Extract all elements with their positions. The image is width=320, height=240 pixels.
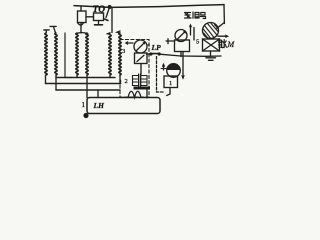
XJ top right wire [217, 23, 225, 29]
wire rail 1 [56, 77, 115, 79]
signal relay left pin [166, 40, 175, 42]
svg-text:1: 1 [82, 101, 86, 109]
link LP [149, 52, 152, 55]
wire top bus right drop [223, 5, 225, 24]
svg-text:2: 2 [125, 78, 128, 85]
wire stub right of signal relay [193, 28, 195, 41]
svg-text:3: 3 [122, 48, 125, 55]
arrow to signal [190, 25, 192, 35]
relay 2 left pin arrow [163, 65, 165, 71]
svg-text:M: M [227, 40, 236, 49]
XJ bottom pin [210, 51, 212, 56]
relay 2 disc shading [167, 64, 180, 69]
relay 2 right riser arrow [182, 76, 185, 79]
relay 1 contact box [135, 53, 148, 64]
wire link to bus [161, 54, 181, 56]
label 跳M (trip M) hand drawn [219, 40, 227, 48]
contact DL auxiliary [108, 6, 111, 9]
saturating transformer windings [138, 74, 140, 86]
link LP wire left [147, 53, 150, 55]
label 至信号 (to signal) hand drawn [185, 12, 206, 19]
XJ arrow to trip [218, 35, 227, 37]
relay 2 contact box [164, 76, 178, 88]
wire coil b2 drop [86, 75, 88, 98]
dashed drop to relay 2 [157, 57, 164, 93]
relay 2 induction disc [167, 64, 181, 78]
relay XJ hatched disc [203, 23, 219, 39]
svg-text:5: 5 [196, 39, 199, 46]
svg-text:1: 1 [169, 80, 172, 87]
slash in contact box [137, 55, 144, 61]
relay 1 right tick [147, 44, 150, 46]
ground under XJ [206, 57, 216, 59]
coil c1 top hook [107, 32, 110, 35]
XJ flag box [203, 39, 220, 51]
wire rail 2 [46, 83, 121, 85]
XJ disc hatching [203, 23, 218, 38]
wire riser pair3 [111, 21, 113, 33]
signal relay bottom pin [180, 52, 182, 57]
relay 1 needle [137, 43, 145, 51]
signal relay needle [177, 32, 185, 40]
coil c2 top hook [117, 31, 120, 33]
relay dashed case [120, 40, 149, 98]
wire riser pair2 [80, 23, 82, 34]
wire coil c1 drop [109, 75, 111, 78]
relay 2 bottom pin [167, 88, 170, 96]
blob bottom left corner [83, 113, 88, 118]
CT winding coil b2 [86, 33, 88, 75]
trip coil TQ box [94, 13, 104, 21]
wire coil a2 drop [55, 75, 57, 90]
wire top bus [74, 5, 224, 8]
coil a2 top pin [50, 26, 56, 32]
wire R to TQ coil [86, 16, 94, 18]
terminal bar under TQ [95, 24, 103, 26]
wire drop to resistor [80, 6, 82, 11]
signal relay contact box [175, 40, 190, 52]
terminal box LH [87, 98, 160, 114]
relay 2 left pin tick [161, 68, 167, 70]
wire coil a1 drop [45, 75, 47, 84]
CT winding coil a2 [55, 33, 57, 75]
signal relay disc [175, 30, 187, 42]
relay 1 induction disc [134, 40, 147, 53]
contact foot pair3 [105, 19, 109, 21]
wire TQ bottom lead [98, 21, 100, 24]
flexible loop humps [128, 91, 141, 97]
CT winding coil a1 [45, 33, 47, 75]
XJ flag cross [203, 39, 220, 51]
wire rail 3 [56, 89, 120, 91]
wire relay1 to transformer [140, 64, 142, 75]
wire bus under relays [181, 55, 221, 57]
svg-text:LP: LP [151, 43, 162, 52]
wire coil c2 drop [119, 75, 122, 84]
CT winding coil c1 [109, 33, 111, 75]
CT winding coil c2 [119, 33, 121, 75]
resistor R [78, 11, 87, 23]
arrow direction element [128, 42, 134, 44]
coil a1 top pin [44, 30, 49, 33]
wire transformer to box [146, 90, 148, 99]
conductor line mid [65, 33, 72, 78]
wire coil b1 drop [76, 75, 78, 78]
transformer core bar [134, 87, 151, 90]
wire drop to terminal box [97, 90, 99, 98]
svg-text:LH: LH [93, 101, 106, 110]
relay 2 right riser [182, 52, 184, 78]
pair b arch [76, 33, 88, 35]
connector cup pair2 [78, 23, 84, 26]
CT winding coil b1 [76, 33, 78, 75]
